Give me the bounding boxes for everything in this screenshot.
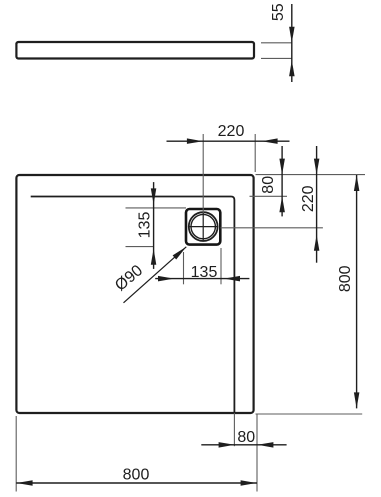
dimension 220 right: arrow down (314, 159, 320, 175)
dimension 80 bottom: arrow left (257, 442, 273, 448)
svg-text:55: 55 (270, 3, 287, 21)
extension line tray top edge to right (256, 174, 366, 176)
dimension 55 extension line top (261, 42, 293, 44)
dimension 135 horizontal: dimension line (155, 278, 249, 280)
dimension 220 top: extension line at tray right edge (254, 134, 256, 172)
dimension 135 vertical: dimension line (153, 182, 155, 269)
dimension 80 right: dimension line (281, 146, 283, 216)
svg-text:800: 800 (123, 467, 150, 484)
svg-text:80: 80 (237, 429, 255, 446)
drain cross vertical (202, 212, 204, 241)
dimension 800 right: dimension line (356, 175, 358, 408)
drain diameter leader arrow (173, 247, 187, 260)
dimension 220 right: dimension line (316, 146, 318, 263)
dimension 220 top: dimension line (167, 140, 290, 142)
dimension 800 bottom: dimension line (16, 482, 257, 484)
dimension 55 extension line bottom (261, 57, 293, 59)
tray outer square (plan view) (16, 175, 253, 413)
drain outer circle (189, 212, 218, 241)
side view tray profile (top) (16, 42, 254, 59)
dimension 220 top: extension line at drain centre (202, 134, 204, 213)
dimension 135 horizontal: arrow right (158, 276, 174, 282)
drain diameter leader line (124, 247, 187, 303)
extension line rim top edge to right (250, 195, 288, 197)
dimension 800 bottom: arrow left (17, 480, 33, 486)
dimension 800 right: arrow down (354, 392, 360, 408)
svg-text:135: 135 (137, 212, 154, 239)
dimension 55 arrow up (289, 60, 295, 76)
svg-text:80: 80 (260, 176, 277, 194)
dimension 80 bottom: dimension line (201, 444, 286, 446)
dimension 220 top: arrow right (187, 138, 203, 144)
svg-text:Ø90: Ø90 (112, 262, 146, 295)
dimension 135 vertical: extension line at drain bottom (126, 246, 154, 248)
tray inner rim edge (31, 197, 235, 413)
extension line tray right edge below tray (256, 414, 258, 492)
drain square (186, 209, 220, 245)
dimension 800 right: arrow up (354, 175, 360, 191)
svg-text:800: 800 (337, 265, 354, 292)
dimension 800 bottom: arrow right (241, 480, 257, 486)
dimension 220 top: arrow left (262, 138, 278, 144)
extension line tray left edge below tray (15, 416, 17, 492)
dimension 135 vertical: extension line at drain top (126, 207, 187, 209)
dimension 55 arrow down (289, 27, 295, 43)
dimension 135 vertical: arrow up (151, 249, 157, 265)
dimension 135 vertical: arrow down (151, 188, 157, 204)
dimension 135 horizontal: extension line at drain right (220, 248, 222, 284)
dimension 80 right: arrow up (279, 196, 285, 212)
extension line drain centre to right (221, 227, 323, 229)
dimension 220 right: arrow up (314, 235, 320, 251)
dimension 135 horizontal: arrow left (224, 276, 240, 282)
extension line rim right edge below tray (233, 413, 235, 446)
drain inner circle (191, 214, 215, 238)
drain cross horizontal (189, 226, 218, 228)
dimension 80 right: arrow down (279, 159, 285, 175)
dimension 55 dimension line (291, 4, 293, 82)
svg-text:220: 220 (300, 185, 317, 212)
extension line tray bottom edge to right (256, 413, 363, 415)
dimension 80 bottom: arrow right (219, 442, 235, 448)
svg-text:220: 220 (218, 123, 245, 140)
svg-text:135: 135 (191, 264, 218, 281)
dimension 135 horizontal: extension line at drain left (183, 252, 185, 284)
